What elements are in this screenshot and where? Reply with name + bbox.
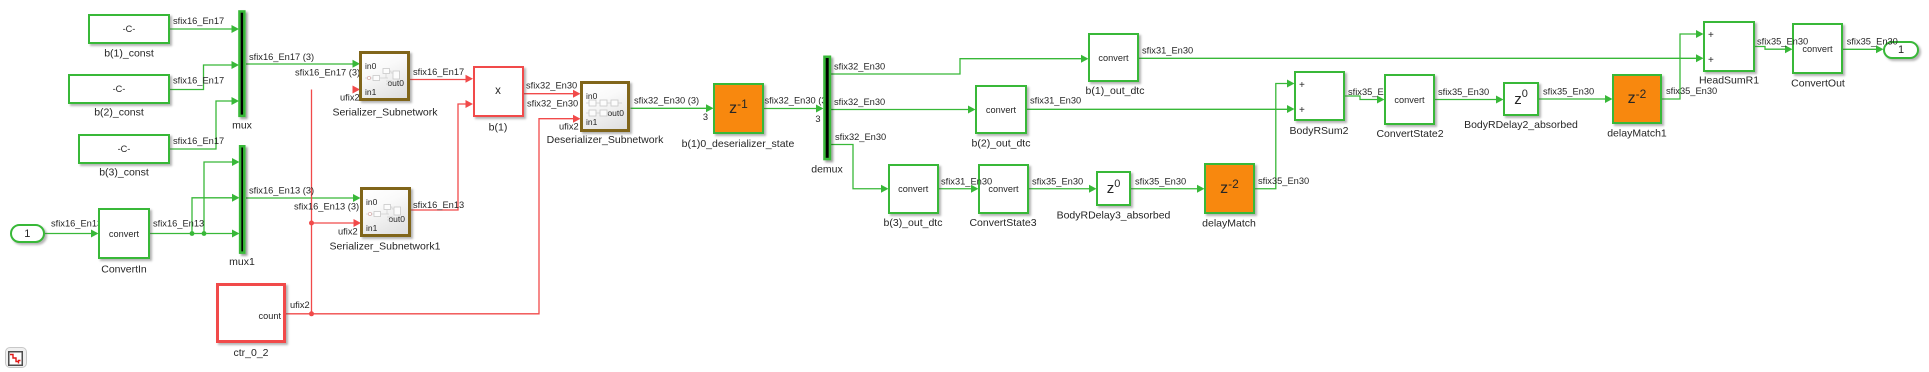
svg-text:sfix32_En30: sfix32_En30: [834, 61, 885, 71]
svg-text:ConvertOut: ConvertOut: [1791, 78, 1845, 90]
svg-text:3: 3: [815, 114, 820, 124]
svg-text:sfix32_En30 (3): sfix32_En30 (3): [634, 96, 699, 106]
svg-text:sfix35_En30: sfix35_En30: [1666, 86, 1717, 96]
svg-text:sfix31_En30: sfix31_En30: [1142, 46, 1193, 56]
svg-text:ConvertState2: ConvertState2: [1376, 128, 1443, 140]
svg-text:sfix16_En17: sfix16_En17: [173, 16, 224, 26]
svg-text:sfix16_En13: sfix16_En13: [153, 219, 204, 229]
svg-text:delayMatch: delayMatch: [1202, 217, 1256, 229]
svg-text:b(1)_out_dtc: b(1)_out_dtc: [1086, 85, 1145, 97]
svg-text:sfix31_En30: sfix31_En30: [1030, 95, 1081, 105]
svg-text:ufix2: ufix2: [290, 300, 310, 310]
svg-text:mux: mux: [232, 120, 253, 132]
svg-text:sfix16_En13 (3): sfix16_En13 (3): [249, 185, 314, 195]
svg-text:sfix32_En30 (3): sfix32_En30 (3): [765, 95, 830, 105]
svg-text:sfix35_En30: sfix35_En30: [1438, 87, 1489, 97]
svg-text:mux1: mux1: [229, 256, 255, 268]
svg-text:sfix35_En30: sfix35_En30: [1135, 176, 1186, 186]
svg-text:ufix2: ufix2: [559, 121, 579, 131]
svg-text:Deserializer_Subnetwork: Deserializer_Subnetwork: [547, 134, 664, 146]
svg-text:b(1): b(1): [489, 122, 508, 134]
svg-text:sfix35_En30: sfix35_En30: [1258, 176, 1309, 186]
svg-text:sfix32_En30: sfix32_En30: [835, 132, 886, 142]
svg-text:sfix16_En17 (3): sfix16_En17 (3): [249, 52, 314, 62]
svg-text:b(2)_const: b(2)_const: [94, 107, 144, 119]
svg-text:b(1)0_deserializer_state: b(1)0_deserializer_state: [682, 138, 795, 150]
svg-text:BodyRDelay3_absorbed: BodyRDelay3_absorbed: [1057, 210, 1171, 222]
svg-text:BodyRSum2: BodyRSum2: [1290, 125, 1349, 137]
svg-text:sfix16_En17: sfix16_En17: [173, 136, 224, 146]
svg-text:delayMatch1: delayMatch1: [1607, 128, 1667, 140]
svg-text:demux: demux: [811, 164, 843, 176]
svg-text:ufix2: ufix2: [338, 226, 358, 236]
svg-text:sfix16_En17: sfix16_En17: [173, 76, 224, 86]
svg-text:BodyRDelay2_absorbed: BodyRDelay2_absorbed: [1464, 119, 1578, 131]
svg-text:sfix32_En30: sfix32_En30: [526, 81, 577, 91]
svg-text:sfix16_En17: sfix16_En17: [413, 67, 464, 77]
svg-text:sfix32_En30: sfix32_En30: [527, 98, 578, 108]
svg-text:sfix35_En30: sfix35_En30: [1032, 176, 1083, 186]
svg-text:sfix32_En30: sfix32_En30: [834, 97, 885, 107]
svg-text:HeadSumR1: HeadSumR1: [1699, 75, 1759, 87]
svg-text:sfix16_En13: sfix16_En13: [51, 219, 102, 229]
svg-text:3: 3: [703, 112, 708, 122]
svg-text:Serializer_Subnetwork: Serializer_Subnetwork: [332, 107, 438, 119]
svg-text:sfix16_En13 (3): sfix16_En13 (3): [294, 201, 359, 211]
svg-text:ctr_0_2: ctr_0_2: [233, 347, 268, 359]
svg-text:sfix35_En30: sfix35_En30: [1543, 86, 1594, 96]
svg-text:ConvertIn: ConvertIn: [101, 264, 147, 276]
svg-text:Serializer_Subnetwork1: Serializer_Subnetwork1: [330, 241, 441, 253]
svg-text:b(3)_const: b(3)_const: [99, 167, 149, 179]
svg-text:b(1)_const: b(1)_const: [104, 48, 154, 60]
svg-text:sfix16_En13: sfix16_En13: [413, 200, 464, 210]
svg-text:sfix16_En17 (3): sfix16_En17 (3): [295, 67, 360, 77]
svg-text:sfix35_En: sfix35_En: [1348, 87, 1389, 97]
svg-text:b(3)_out_dtc: b(3)_out_dtc: [884, 217, 943, 229]
svg-text:b(2)_out_dtc: b(2)_out_dtc: [972, 138, 1031, 150]
svg-text:ufix2: ufix2: [340, 92, 360, 102]
svg-text:ConvertState3: ConvertState3: [969, 217, 1036, 229]
